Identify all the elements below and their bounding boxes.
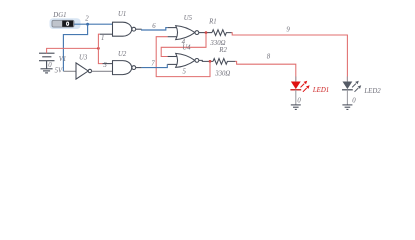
svg-text:U4: U4	[182, 44, 191, 51]
ground (LED2)	[342, 105, 352, 110]
svg-text:R1: R1	[208, 19, 217, 26]
junction net 4	[205, 31, 208, 34]
svg-text:5V: 5V	[55, 68, 63, 75]
resistor R1	[212, 30, 232, 36]
wire net 7: U2 output to U4 bottom input	[142, 64, 168, 67]
U4 output stub and R2 left lead	[199, 60, 213, 61]
svg-text:R2: R2	[218, 47, 227, 54]
wire net 8: R2 to LED1	[235, 61, 296, 80]
wire net 5: feedback U4 output to U5 bottom input	[156, 37, 210, 77]
NOR gate U5	[176, 26, 199, 40]
junction net 2	[86, 23, 89, 26]
digital constant DG1	[52, 20, 74, 27]
svg-text:U1: U1	[118, 11, 126, 18]
svg-text:0: 0	[297, 98, 301, 105]
wire net 2: DG1 output to U1 top input	[74, 23, 112, 25]
svg-text:LED2: LED2	[363, 88, 381, 95]
U5 input stubs	[168, 28, 178, 37]
wire net 2 branch: junction down and across to inverter U3 input	[63, 24, 87, 71]
digital constant DG1 highlight	[50, 18, 81, 29]
svg-text:8: 8	[267, 53, 271, 60]
junction net 5	[209, 60, 212, 63]
svg-text:1: 1	[101, 35, 104, 42]
svg-text:5: 5	[183, 68, 187, 75]
LED2 (off, gray)	[342, 77, 361, 105]
U5 output stub and R1 left lead	[199, 32, 212, 34]
svg-text:3: 3	[102, 62, 107, 69]
wire net 9: R1 to LED2	[231, 33, 347, 81]
svg-text:U3: U3	[79, 55, 88, 62]
svg-text:6: 6	[152, 23, 156, 30]
svg-text:0: 0	[48, 62, 52, 69]
battery V1	[39, 53, 55, 69]
svg-text:U5: U5	[184, 15, 193, 22]
svg-text:V1: V1	[59, 56, 67, 63]
NAND gate U1	[100, 22, 142, 36]
resistor R2	[213, 59, 235, 65]
wire net 4: feedback U5 output to U4 top input	[161, 33, 206, 57]
LED1 (lit, red)	[290, 77, 309, 105]
junction net 1	[97, 47, 100, 50]
ground (battery)	[41, 69, 53, 73]
svg-text:LED1: LED1	[312, 87, 329, 94]
wire net 1 up branch to U1 pin	[98, 34, 100, 48]
ground (LED1)	[291, 105, 301, 110]
svg-text:0: 0	[352, 97, 356, 104]
NOR gate U4	[176, 53, 199, 67]
NAND gate U2	[103, 61, 142, 75]
wire net 1: battery plus to junction	[47, 48, 99, 53]
svg-text:9: 9	[286, 26, 290, 33]
svg-text:U2: U2	[118, 51, 127, 58]
svg-text:330Ω: 330Ω	[209, 40, 225, 47]
wire net 6: U1 output to U5 top input	[142, 28, 168, 30]
svg-text:7: 7	[151, 60, 155, 67]
inverter U3	[76, 63, 92, 79]
svg-text:DG1: DG1	[52, 12, 66, 19]
wire net 2 segment into U3 (gray)	[63, 70, 76, 72]
wire net 1 down branch to U2 pin	[98, 48, 103, 63]
U4 input stubs	[167, 57, 178, 65]
svg-text:330Ω: 330Ω	[214, 71, 230, 78]
svg-text:2: 2	[85, 15, 89, 22]
wire net 3: U3 output to U2 bottom input	[92, 70, 113, 72]
